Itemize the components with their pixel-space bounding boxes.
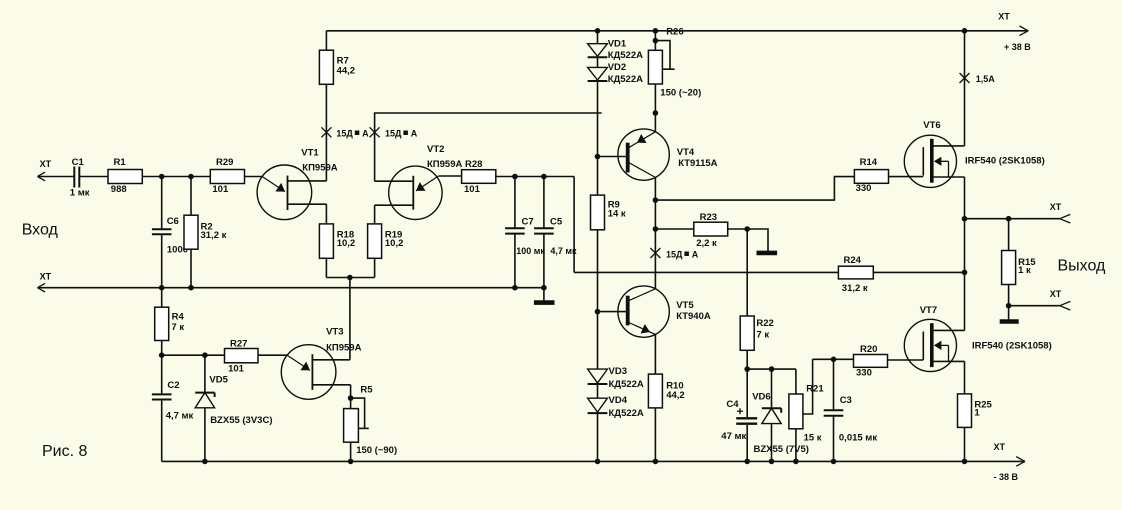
diode VD1 bbox=[588, 39, 644, 62]
svg-text:0,015 мк: 0,015 мк bbox=[839, 432, 877, 443]
current mark 15Д mA (out) bbox=[650, 248, 698, 260]
ground (input common) bbox=[534, 288, 555, 303]
wire VT2 gate to R28 bbox=[438, 175, 461, 177]
node lower output bbox=[1006, 303, 1012, 309]
svg-text:101: 101 bbox=[228, 364, 245, 375]
resistor R10 bbox=[648, 374, 684, 408]
svg-text:КП959А: КП959А bbox=[302, 162, 337, 173]
svg-text:330: 330 bbox=[856, 183, 872, 194]
svg-text:IRF540 (2SK1058): IRF540 (2SK1058) bbox=[965, 156, 1045, 167]
svg-text:VD1: VD1 bbox=[608, 39, 627, 50]
transistor VT7 bbox=[904, 305, 1051, 371]
wire R5 bottom bbox=[350, 442, 352, 461]
wire VT5 emitter to R10 bbox=[654, 334, 656, 374]
svg-text:VD5: VD5 bbox=[209, 375, 228, 386]
wire input common rail bbox=[38, 287, 544, 289]
svg-text:150 (~20): 150 (~20) bbox=[660, 88, 701, 99]
capacitor C5 bbox=[534, 177, 577, 288]
node output/VT6 bbox=[962, 216, 968, 222]
node R26/emitter bbox=[653, 110, 659, 116]
svg-text:1: 1 bbox=[974, 408, 980, 419]
node rail/C3 bbox=[831, 459, 837, 465]
wire VT2 source to R19 bbox=[374, 205, 376, 224]
svg-text:C5: C5 bbox=[550, 216, 563, 227]
label XT (output top) bbox=[1050, 202, 1062, 212]
svg-text:2,2 к: 2,2 к bbox=[696, 238, 717, 249]
svg-text:101: 101 bbox=[212, 184, 229, 195]
wire common to R4 bbox=[161, 288, 163, 308]
wire VD3 to VD4 bbox=[597, 384, 599, 398]
resistor R22 bbox=[740, 316, 774, 350]
resistor R28 bbox=[462, 159, 496, 195]
wire R14 to VT6 gate bbox=[889, 176, 924, 178]
node common/C7 bbox=[512, 285, 518, 291]
resistor R19 bbox=[368, 224, 404, 258]
wire R2 bottom lead bbox=[190, 249, 192, 288]
resistor R7 bbox=[319, 50, 355, 84]
svg-text:VD3: VD3 bbox=[609, 366, 627, 377]
node rail/VD5 bbox=[202, 459, 208, 465]
transistor VT2 bbox=[375, 144, 463, 220]
node C4 top bbox=[744, 366, 750, 372]
wire C6 top lead bbox=[161, 177, 163, 230]
current mark 15Д mA (VT2) bbox=[370, 127, 418, 138]
svg-text:4,7 мк: 4,7 мк bbox=[166, 410, 194, 421]
svg-text:КД522А: КД522А bbox=[609, 408, 644, 419]
resistor R14 bbox=[854, 157, 888, 194]
svg-text:VD4: VD4 bbox=[609, 395, 628, 406]
wire R28 to feedback corner bbox=[496, 176, 574, 178]
wire R23 to node bbox=[728, 228, 748, 230]
capacitor C6 bbox=[152, 216, 188, 256]
svg-text:R27: R27 bbox=[230, 339, 247, 350]
wire R27 node rail bbox=[162, 354, 225, 356]
svg-text:VT2: VT2 bbox=[427, 144, 444, 155]
svg-text:VT3: VT3 bbox=[326, 327, 343, 338]
svg-text:15Д: 15Д bbox=[336, 129, 353, 139]
svg-text:C2: C2 bbox=[167, 380, 179, 391]
svg-text:C6: C6 bbox=[167, 216, 179, 227]
wire C2 bottom lead bbox=[161, 400, 163, 462]
wire VT6 drain to rail bbox=[964, 31, 966, 146]
wire output column bbox=[964, 219, 966, 331]
node input/R2 bbox=[188, 174, 194, 180]
diode VD2 bbox=[588, 62, 644, 85]
wire C6 bottom lead bbox=[161, 234, 163, 287]
node collector/R14 bbox=[653, 197, 659, 203]
wire R18 bottom bbox=[325, 258, 327, 277]
svg-text:A: A bbox=[411, 129, 418, 139]
svg-text:100 мк: 100 мк bbox=[516, 246, 545, 256]
diode VD3 bbox=[588, 366, 644, 390]
wire C1 to R1 bbox=[79, 176, 108, 178]
node R23/R22 bbox=[744, 226, 750, 232]
svg-text:VD2: VD2 bbox=[608, 62, 626, 73]
wire collector to R14 bbox=[655, 177, 854, 201]
resistor R23 bbox=[694, 212, 728, 249]
svg-text:VT7: VT7 bbox=[920, 305, 937, 316]
wire R23 node to R22 bbox=[746, 229, 748, 316]
wire R15 top lead bbox=[1008, 219, 1010, 251]
svg-text:101: 101 bbox=[464, 184, 481, 195]
node rail/R5 bbox=[348, 459, 354, 465]
resistor R1 bbox=[108, 157, 142, 195]
wire R24 to output column bbox=[873, 271, 964, 273]
wire R15 bottom lead bbox=[1008, 285, 1010, 306]
svg-text:VT1: VT1 bbox=[301, 147, 319, 158]
label XT (input top) bbox=[40, 159, 52, 169]
node VD5 top bbox=[202, 352, 208, 358]
node VD6 top bbox=[769, 366, 775, 372]
wire collector to R23 bbox=[655, 228, 693, 230]
svg-text:КД522А: КД522А bbox=[608, 74, 643, 85]
wire R21 bottom lead bbox=[795, 429, 797, 462]
wire R29 to VT1 gate bbox=[245, 176, 263, 178]
wire R20 to VT7 gate bbox=[888, 359, 924, 361]
label - 38 В bbox=[994, 472, 1019, 482]
svg-text:15 к: 15 к bbox=[804, 432, 822, 443]
svg-text:A: A bbox=[362, 129, 369, 139]
svg-text:XT: XT bbox=[40, 159, 52, 169]
node input/C6 bbox=[159, 174, 165, 180]
svg-text:14 к: 14 к bbox=[608, 209, 626, 220]
wire R18-R19 join bbox=[326, 277, 374, 279]
node output/R15 bbox=[1006, 216, 1012, 222]
svg-text:КП959А: КП959А bbox=[427, 159, 462, 170]
resistor R24 bbox=[838, 255, 873, 294]
wire VT1 source to R18 bbox=[325, 204, 327, 224]
svg-text:R23: R23 bbox=[700, 212, 717, 223]
svg-text:- 38 В: - 38 В bbox=[994, 472, 1019, 482]
svg-text:C3: C3 bbox=[840, 395, 852, 406]
label Выход bbox=[1058, 258, 1107, 275]
capacitor C4 bbox=[721, 399, 757, 442]
label Рис. 8 bbox=[42, 443, 88, 460]
svg-text:4,7 мк: 4,7 мк bbox=[550, 246, 577, 256]
node C3 top bbox=[831, 357, 837, 363]
wire R21 wiper to R20 bbox=[813, 358, 854, 360]
svg-text:R20: R20 bbox=[860, 344, 877, 355]
svg-text:КТ940А: КТ940А bbox=[676, 311, 711, 322]
resistor R4 bbox=[155, 307, 185, 340]
wire feedback vertical bbox=[573, 177, 575, 273]
svg-text:7 к: 7 к bbox=[756, 330, 769, 341]
svg-text:XT: XT bbox=[1050, 202, 1062, 212]
svg-text:47 мк: 47 мк bbox=[721, 431, 746, 442]
wire R10 bottom bbox=[654, 408, 656, 462]
wire bias node rail bbox=[747, 368, 796, 370]
node sources join bbox=[347, 275, 353, 281]
transistor VT4 bbox=[598, 129, 718, 180]
wire +38 V top rail bbox=[326, 30, 1028, 32]
wire VT7 source to R25 bbox=[964, 361, 966, 394]
node rail/R10 bbox=[653, 459, 659, 465]
node VT5 base bbox=[595, 309, 601, 315]
svg-text:150 (~90): 150 (~90) bbox=[356, 445, 397, 456]
svg-text:VD6: VD6 bbox=[752, 392, 770, 403]
trimmer R21 bbox=[789, 359, 824, 443]
transistor VT6 bbox=[904, 120, 1044, 187]
XT output terminal arrow (top) bbox=[1060, 214, 1071, 223]
ground (R23) bbox=[747, 229, 777, 253]
svg-text:BZX55 (3V3C): BZX55 (3V3C) bbox=[210, 415, 272, 426]
svg-text:XT: XT bbox=[1050, 289, 1062, 299]
svg-text:R24: R24 bbox=[844, 255, 862, 266]
wire C4 bottom lead bbox=[746, 425, 748, 462]
svg-text:IRF540 (2SK1058): IRF540 (2SK1058) bbox=[972, 341, 1052, 352]
svg-text:VT5: VT5 bbox=[676, 300, 694, 311]
svg-text:15Д: 15Д bbox=[666, 250, 683, 260]
svg-text:R1: R1 bbox=[114, 157, 127, 168]
svg-text:1,5A: 1,5A bbox=[976, 74, 996, 84]
wire C3 bottom lead bbox=[833, 416, 835, 462]
wire VT3 source to R5 bbox=[350, 385, 352, 409]
svg-text:R4: R4 bbox=[172, 312, 185, 323]
wire VD5 top lead bbox=[204, 355, 206, 392]
svg-text:R5: R5 bbox=[360, 385, 373, 396]
wire -38 V bottom rail bbox=[162, 460, 1025, 462]
svg-text:R28: R28 bbox=[465, 159, 482, 170]
label XT (-38) bbox=[994, 442, 1006, 452]
capacitor C2 bbox=[152, 380, 194, 421]
node top rail / R26 bbox=[653, 28, 659, 34]
node top rail / VD1 column bbox=[595, 28, 601, 34]
wire input to C1 bbox=[38, 176, 75, 178]
wire R9 to VD3 bbox=[597, 230, 599, 369]
wire R21 top lead bbox=[795, 369, 797, 394]
resistor R27 bbox=[225, 339, 259, 375]
wire R19 bottom bbox=[374, 258, 376, 277]
wire VD5 bottom lead bbox=[204, 408, 206, 462]
wire R22 to bias node bbox=[746, 350, 748, 369]
svg-text:КТ9115А: КТ9115А bbox=[678, 158, 717, 169]
wire R1 to R29 bbox=[142, 176, 210, 178]
svg-text:R26: R26 bbox=[666, 26, 683, 37]
zener VD5 bbox=[195, 375, 272, 426]
wire VD6 bottom lead bbox=[771, 424, 773, 462]
resistor R15 bbox=[1002, 251, 1037, 285]
svg-text:44,2: 44,2 bbox=[666, 390, 685, 401]
node rail/R25 bbox=[962, 459, 968, 465]
node R5 wiper bbox=[348, 395, 354, 401]
svg-text:C7: C7 bbox=[522, 216, 534, 227]
wire VD4 to rail bbox=[597, 413, 599, 461]
svg-text:15Д: 15Д bbox=[385, 129, 402, 139]
label XT (input bottom) bbox=[40, 272, 52, 282]
zener VD6 bbox=[752, 392, 809, 456]
XT input terminal arrow (bottom) bbox=[38, 283, 46, 292]
svg-text:Выход: Выход bbox=[1058, 258, 1107, 275]
wire VD6 top lead bbox=[771, 369, 773, 408]
wire R26 to VT4 emitter bbox=[654, 84, 656, 132]
svg-text:XT: XT bbox=[994, 442, 1006, 452]
ground (output) bbox=[1000, 306, 1019, 322]
wire VD1 to VD2 bbox=[597, 57, 599, 67]
wire R7 to VT1 drain bbox=[325, 84, 327, 181]
resistor R20 bbox=[854, 344, 888, 379]
node R4/C2 bbox=[159, 352, 165, 358]
svg-text:XT: XT bbox=[40, 272, 52, 282]
node R28/C7 bbox=[512, 174, 518, 180]
node common/C6 bbox=[159, 285, 165, 291]
node common/R2 bbox=[188, 285, 194, 291]
label + 38 В bbox=[1004, 42, 1031, 52]
node common/C5 bbox=[541, 285, 547, 291]
wire VT6 source to output bbox=[964, 177, 966, 219]
fuse mark 1,5A bbox=[960, 73, 996, 84]
node collector/R23 bbox=[653, 226, 659, 232]
wire rail to VD1 bbox=[597, 31, 599, 44]
wire join to VT3 drain bbox=[349, 278, 351, 360]
svg-text:C1: C1 bbox=[72, 157, 85, 168]
XT input terminal arrow (top) bbox=[38, 172, 46, 181]
resistor R18 bbox=[319, 224, 355, 258]
capacitor C7 bbox=[505, 177, 545, 288]
svg-text:10,2: 10,2 bbox=[385, 238, 404, 249]
wire feedback to R24 bbox=[574, 271, 838, 273]
wire output to terminal bbox=[965, 218, 1060, 220]
wire VD2 to R9 bbox=[597, 81, 599, 195]
node VT4 base bbox=[595, 154, 601, 160]
svg-text:XT: XT bbox=[998, 12, 1010, 22]
svg-text:A: A bbox=[692, 250, 699, 260]
wire R2 top lead bbox=[190, 177, 192, 216]
svg-text:31,2 к: 31,2 к bbox=[842, 283, 868, 294]
label XT (+38) bbox=[998, 12, 1010, 22]
wire C4 top lead bbox=[746, 369, 748, 417]
wire VT4 collector chain bbox=[654, 177, 656, 288]
svg-text:BZX55 (7V5): BZX55 (7V5) bbox=[754, 444, 809, 455]
wire R27 to VT3 gate bbox=[258, 354, 287, 356]
node rail/C4 bbox=[744, 459, 750, 465]
node output/R24 bbox=[962, 270, 968, 276]
resistor R9 bbox=[591, 195, 626, 230]
transistor VT5 bbox=[598, 286, 711, 337]
XT output terminal arrow (bottom) bbox=[1060, 301, 1071, 310]
wire R4 to R27 node bbox=[161, 341, 163, 356]
resistor R2 bbox=[184, 215, 227, 249]
wire rail to R26 bbox=[654, 31, 656, 51]
label XT (output bottom) bbox=[1050, 289, 1062, 299]
wire C3 top lead bbox=[833, 359, 835, 410]
capacitor C1 bbox=[70, 157, 90, 198]
wire VD2 to VT2 drain bbox=[375, 113, 602, 181]
diode VD4 bbox=[588, 395, 644, 419]
transistor VT1 bbox=[257, 147, 338, 219]
svg-text:44,2: 44,2 bbox=[337, 66, 356, 77]
node rail/VD4 bbox=[595, 459, 601, 465]
svg-text:10,2: 10,2 bbox=[337, 238, 356, 249]
svg-text:R29: R29 bbox=[216, 157, 233, 168]
node rail/VD6 bbox=[769, 459, 775, 465]
svg-text:КП959А: КП959А bbox=[326, 343, 361, 354]
node rail/R21 bbox=[793, 459, 799, 465]
capacitor C3 bbox=[824, 395, 878, 443]
transistor VT3 bbox=[281, 327, 361, 400]
resistor R25 bbox=[958, 394, 993, 428]
svg-text:Вход: Вход bbox=[22, 222, 59, 239]
label Вход bbox=[22, 222, 59, 239]
svg-text:988: 988 bbox=[111, 184, 127, 195]
XT -38 terminal arrow bbox=[1016, 457, 1025, 467]
trimmer R26 bbox=[648, 26, 701, 98]
svg-text:КД522А: КД522А bbox=[608, 50, 643, 61]
XT +38 terminal arrow bbox=[1020, 26, 1029, 36]
node top rail / VT6 drain bbox=[962, 28, 968, 34]
trimmer R5 bbox=[344, 385, 398, 457]
current mark 15Д mA (VT1) bbox=[321, 127, 369, 138]
svg-text:R22: R22 bbox=[756, 318, 773, 329]
svg-text:1 к: 1 к bbox=[1018, 265, 1031, 276]
node R28/C5 bbox=[541, 174, 547, 180]
svg-text:КД522А: КД522А bbox=[609, 379, 644, 390]
svg-text:1 мк: 1 мк bbox=[70, 187, 90, 198]
svg-text:VT6: VT6 bbox=[923, 120, 940, 131]
svg-text:31,2 к: 31,2 к bbox=[201, 230, 227, 241]
svg-text:R14: R14 bbox=[860, 157, 878, 168]
wire R25 bottom bbox=[964, 427, 966, 461]
svg-text:+ 38 В: + 38 В bbox=[1004, 42, 1031, 52]
svg-text:7 к: 7 к bbox=[171, 322, 184, 333]
svg-text:R21: R21 bbox=[806, 384, 824, 395]
svg-text:C4: C4 bbox=[726, 399, 739, 410]
wire C2 top lead bbox=[161, 355, 163, 394]
wire R7 top lead bbox=[325, 31, 327, 50]
wire lower output bbox=[1009, 305, 1060, 307]
svg-text:VT4: VT4 bbox=[677, 147, 695, 158]
svg-text:330: 330 bbox=[856, 368, 872, 379]
resistor R29 bbox=[210, 157, 244, 195]
svg-text:Рис. 8: Рис. 8 bbox=[42, 443, 88, 460]
